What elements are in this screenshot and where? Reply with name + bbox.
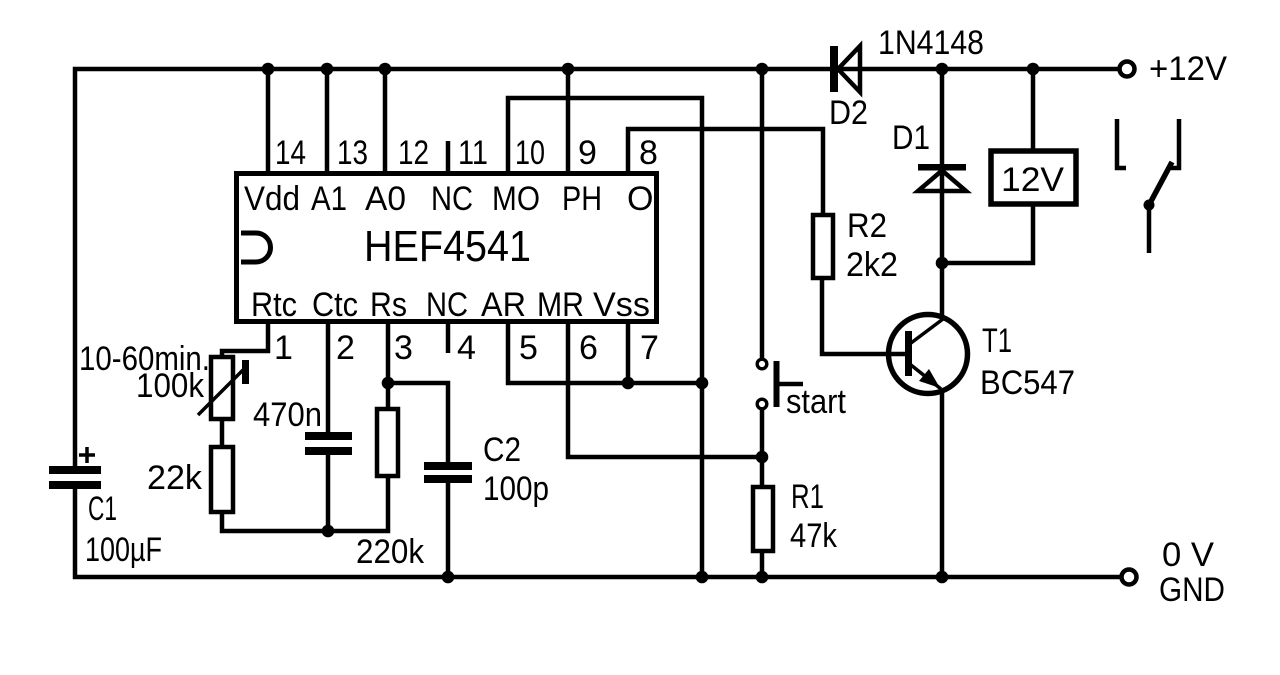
svg-text:4: 4 [457, 329, 476, 367]
wire top +12V rail and left rail [75, 69, 1119, 466]
svg-text:100µF: 100µF [85, 531, 162, 569]
svg-text:HEF4541: HEF4541 [364, 222, 531, 271]
svg-text:220k: 220k [356, 533, 425, 571]
potentiometer arrow [198, 369, 244, 415]
svg-text:MR: MR [537, 286, 584, 324]
svg-text:100p: 100p [483, 470, 549, 508]
svg-text:D1: D1 [892, 119, 930, 157]
junction C2 bottom [442, 571, 455, 584]
capacitor C1 [49, 466, 101, 489]
junction R1 top node [756, 451, 769, 464]
diode D1 triangle [918, 171, 966, 192]
svg-text:7: 7 [640, 329, 659, 367]
wire pin6 to R1 top [568, 324, 762, 457]
terminal +12V [1120, 62, 1135, 77]
T1 emitter arrow [919, 369, 940, 388]
svg-text:2k2: 2k2 [846, 246, 898, 284]
svg-text:11: 11 [458, 134, 488, 172]
wire pin10 loop to ground column [508, 98, 702, 577]
junction top wire pin14 [262, 63, 275, 76]
junction top wire pin13 [321, 63, 334, 76]
svg-text:O: O [627, 180, 653, 218]
wire left rail lower and bottom 0V rail [75, 489, 1121, 577]
potentiometer arrow head bar [242, 360, 249, 384]
svg-text:PH: PH [562, 180, 602, 218]
svg-text:0 V: 0 V [1162, 536, 1214, 574]
wire pin3 to 220k [386, 324, 391, 409]
potentiometer P1 body 100k [211, 357, 233, 419]
wire pin3 node to C2 [388, 383, 448, 462]
svg-text:A1: A1 [311, 180, 347, 218]
junction pin3 node [382, 377, 395, 390]
capacitor C2 [424, 462, 472, 483]
wire pin7 stub down [626, 324, 631, 383]
junction top wire relay column [1027, 63, 1040, 76]
op-amp U1 HEF4541 IC body [237, 174, 657, 322]
svg-text:22k: 22k [147, 459, 203, 497]
terminal GND [1122, 570, 1137, 585]
svg-text:Rtc: Rtc [251, 286, 297, 324]
wire R2 bottom to T1 base [822, 278, 905, 354]
svg-text:470n: 470n [253, 396, 322, 434]
wire T1 collector [940, 263, 945, 319]
svg-text:1N4148: 1N4148 [878, 24, 984, 62]
wire pin2 to 470n [326, 324, 331, 432]
svg-text:start: start [786, 383, 847, 421]
resistor 22k body [211, 447, 233, 512]
junction top wire pin12 [379, 63, 392, 76]
junction top wire pin9 [562, 63, 575, 76]
wire D1 column [940, 69, 945, 263]
svg-text:3: 3 [394, 329, 413, 367]
wire pin5 to ground line [508, 324, 702, 383]
relay switch right contact [1171, 119, 1179, 168]
junction D1 bottom node [936, 257, 949, 270]
T1 collector diagonal [911, 319, 943, 343]
wire relay top [1031, 69, 1036, 151]
junction ground column bottom [696, 571, 709, 584]
junction T1 emitter bottom [936, 571, 949, 584]
svg-text:R1: R1 [791, 478, 824, 516]
wire T1 emitter to ground [940, 390, 945, 577]
relay coil 12V box [991, 151, 1076, 204]
wire pin9 stub [566, 69, 571, 173]
svg-text:12: 12 [398, 134, 429, 172]
diode D1 cathode bar [918, 164, 966, 171]
resistor 220k body [377, 409, 398, 476]
wire pin14 stub [266, 69, 271, 173]
wire pin8 loop to R2 [628, 129, 823, 215]
wire pin12 stub [383, 69, 388, 173]
wire 470n bottom [326, 455, 331, 531]
wire R1 bottom [760, 551, 765, 577]
svg-text:C1: C1 [88, 490, 117, 528]
svg-text:9: 9 [578, 134, 597, 172]
junction ground column upper [696, 377, 709, 390]
svg-text:47k: 47k [790, 517, 838, 555]
svg-text:12V: 12V [1001, 161, 1064, 199]
svg-text:Rs: Rs [370, 286, 407, 324]
wire pin1 to potentiometer [222, 324, 268, 357]
svg-text:+12V: +12V [1149, 50, 1227, 88]
pushbutton start stem [776, 382, 803, 387]
svg-text:10: 10 [515, 134, 545, 172]
svg-text:GND: GND [1159, 571, 1225, 609]
wire relay bottom to D1 node [942, 204, 1033, 263]
svg-text:Ctc: Ctc [312, 286, 358, 324]
capacitor 470n [305, 432, 352, 455]
junction pin7 [622, 377, 635, 390]
svg-text:AR: AR [481, 286, 526, 324]
svg-text:D2: D2 [829, 94, 868, 132]
relay switch pivot [1144, 200, 1155, 211]
svg-text:C2: C2 [483, 431, 521, 469]
wire pin11 stub [446, 141, 451, 173]
svg-text:Vss: Vss [593, 286, 650, 324]
C1 plus sign [79, 447, 95, 463]
svg-text:Vdd: Vdd [244, 180, 300, 218]
svg-text:13: 13 [337, 134, 368, 172]
relay switch left contact [1117, 119, 1126, 168]
resistor R1 body [753, 487, 773, 551]
wire start bottom to R1 node [760, 409, 765, 487]
pushbutton start bottom contact [757, 399, 767, 409]
svg-text:6: 6 [579, 329, 598, 367]
svg-text:T1: T1 [982, 322, 1012, 360]
wire pot to 22k [220, 419, 225, 447]
svg-text:8: 8 [639, 134, 658, 172]
T1 base bar [905, 331, 912, 376]
wire 22k bottom to 220k bottom [222, 476, 388, 531]
pushbutton start top contact [757, 359, 767, 369]
diode D2 cathode bar [830, 46, 838, 92]
svg-text:100k: 100k [136, 367, 205, 405]
svg-text:MO: MO [492, 180, 540, 218]
svg-text:NC: NC [426, 286, 468, 324]
resistor R2 body [813, 215, 833, 278]
svg-text:14: 14 [275, 134, 306, 172]
T1 emitter diagonal [911, 365, 941, 389]
wire start switch column [760, 69, 765, 359]
wire C2 bottom [446, 483, 451, 577]
svg-text:2: 2 [336, 329, 355, 367]
wire pin13 stub [325, 69, 330, 173]
transistor T1 circle [889, 315, 968, 394]
junction top wire start column [756, 63, 769, 76]
relay switch stem [1147, 205, 1152, 253]
U1 notch [241, 233, 271, 262]
pushbutton start bar [774, 361, 780, 407]
junction R1 bottom [756, 571, 769, 584]
svg-text:5: 5 [519, 329, 538, 367]
svg-text:BC547: BC547 [980, 364, 1075, 402]
junction top wire D1 column [936, 63, 949, 76]
junction 470n bottom [322, 525, 335, 538]
wire pin4 NC stub [446, 324, 451, 353]
svg-text:R2: R2 [847, 207, 887, 245]
svg-text:NC: NC [431, 180, 473, 218]
svg-text:A0: A0 [365, 180, 406, 218]
relay switch arm [1149, 162, 1172, 205]
svg-text:1: 1 [274, 329, 293, 367]
diode D2 triangle [838, 46, 860, 92]
